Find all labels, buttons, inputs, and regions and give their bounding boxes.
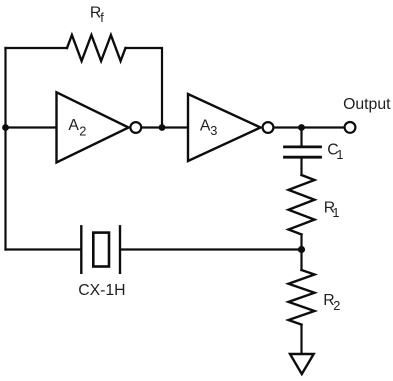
svg-text:3: 3 [210,123,217,138]
svg-text:A: A [200,117,211,134]
svg-text:2: 2 [333,298,340,313]
svg-text:1: 1 [332,205,339,220]
svg-text:A: A [68,117,79,134]
svg-text:1: 1 [336,147,343,162]
svg-text:f: f [100,10,104,25]
svg-text:Output: Output [343,96,391,113]
svg-text:CX-1H: CX-1H [78,282,125,299]
svg-text:2: 2 [79,123,86,138]
